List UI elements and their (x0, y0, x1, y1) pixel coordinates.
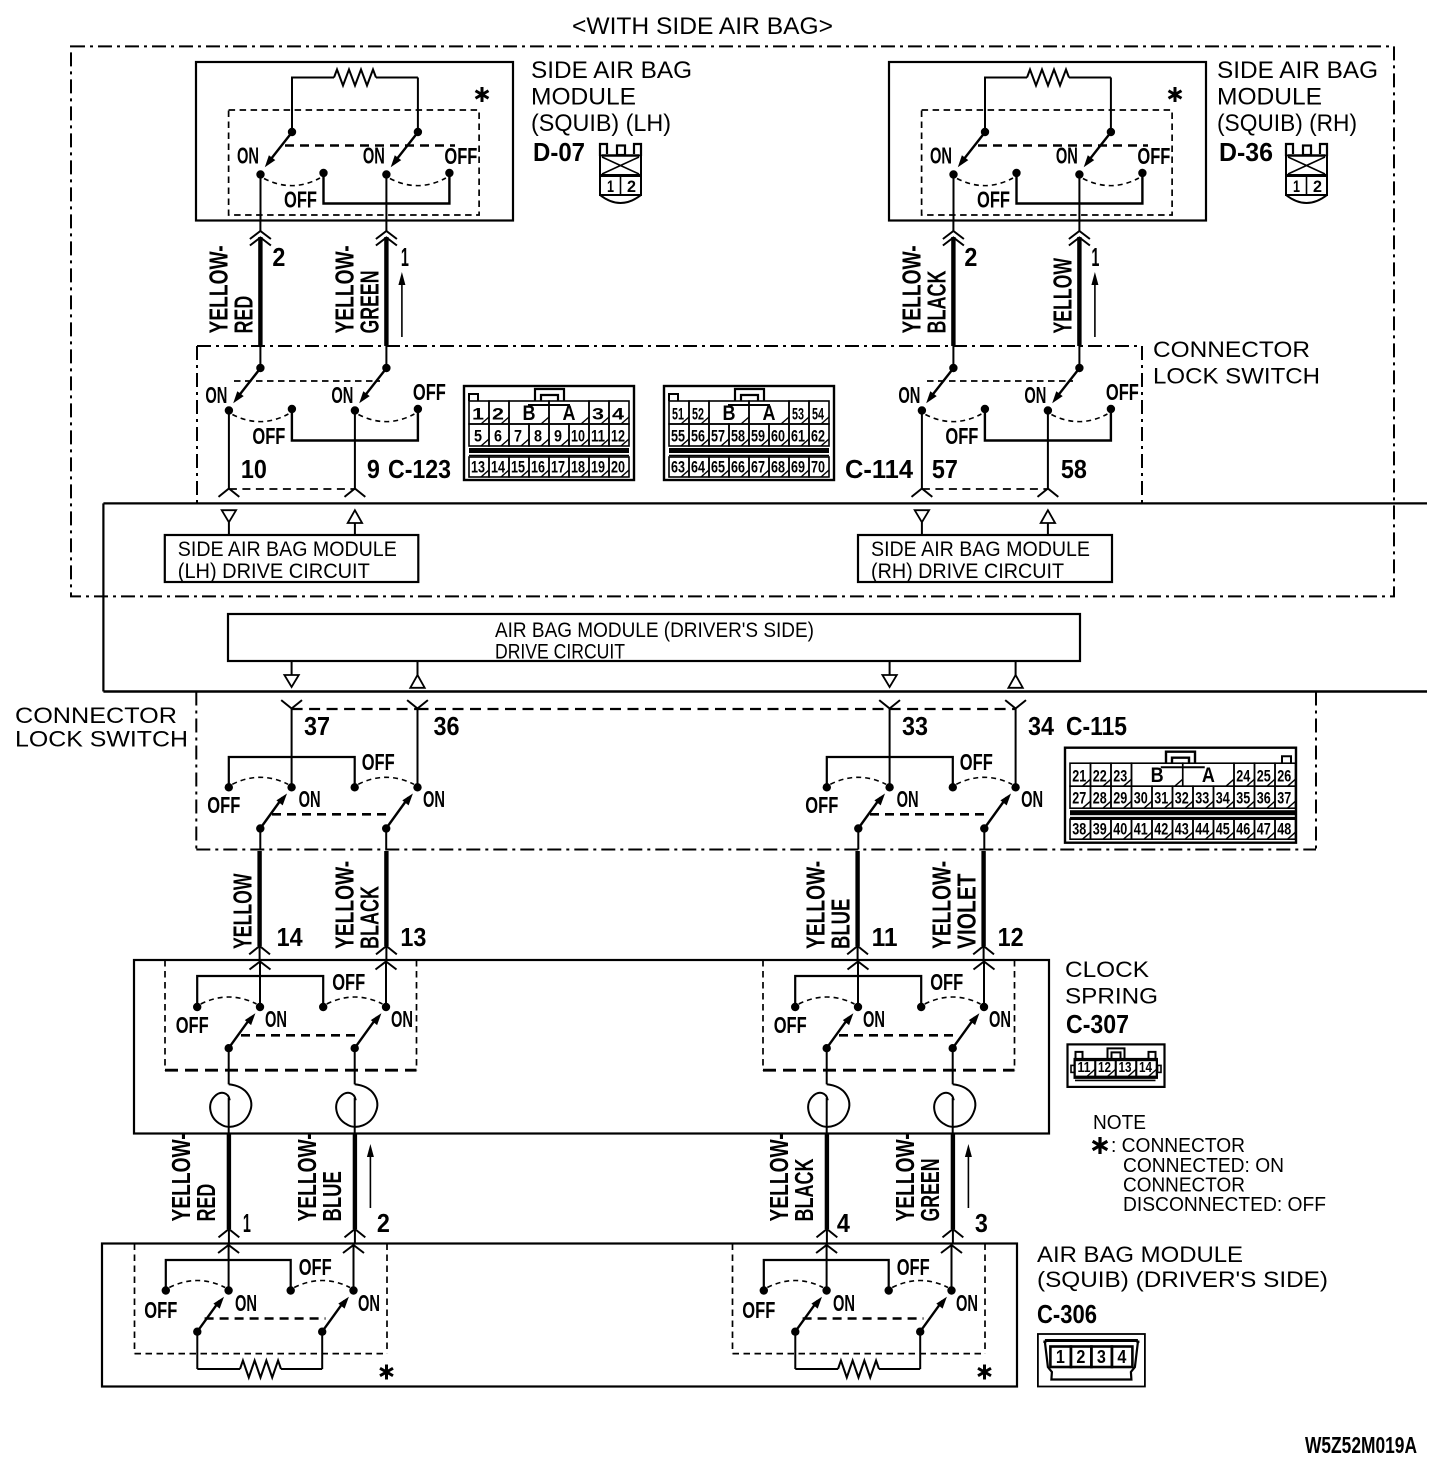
svg-text:BLACK: BLACK (789, 1158, 819, 1221)
svg-text:ON: ON (391, 1006, 413, 1032)
shorting bar row2 LH (292, 411, 418, 441)
wire YELLOW-RED pin1 (driver) (166, 1133, 251, 1243)
svg-text:68: 68 (771, 458, 785, 477)
dashed interface squib left (205, 1317, 326, 1320)
ON label B clock spring left (391, 1006, 413, 1032)
OFF label switch2 module LH (444, 143, 477, 169)
dashed connector outline squib right (733, 1244, 986, 1354)
entry wire B clock spring left (376, 960, 397, 1005)
signal triangle at x=354 (SRS input row) (348, 510, 362, 535)
svg-text:ON: ON (205, 382, 227, 408)
svg-text:65: 65 (711, 458, 725, 477)
svg-text:22: 22 (1093, 767, 1107, 786)
ON label A row3 RH (897, 786, 919, 812)
terminal fork pin A row3 RH (879, 700, 900, 785)
wire to pin A row2 LH (219, 413, 240, 497)
OFF shorting label squib right (897, 1254, 930, 1280)
svg-text:ON: ON (423, 786, 445, 812)
wire pivot B to coil left (354, 1050, 356, 1084)
svg-text:RED: RED (191, 1184, 221, 1222)
svg-text:9: 9 (554, 427, 562, 446)
SRS-ECU box (103, 503, 1427, 691)
svg-text:OFF: OFF (299, 1254, 332, 1280)
svg-text:NOTE: NOTE (1093, 1112, 1146, 1134)
connector C-114 pin diagram (664, 386, 834, 480)
connector D-36 icon (1286, 144, 1327, 203)
svg-text:OFF: OFF (1137, 143, 1170, 169)
air bag module driver label (1037, 1242, 1328, 1292)
svg-text:3: 3 (592, 405, 604, 424)
svg-text:LOCK SWITCH: LOCK SWITCH (1153, 364, 1320, 389)
svg-text:D-07: D-07 (533, 137, 585, 167)
svg-text:2: 2 (492, 405, 504, 424)
svg-text:SIDE AIR BAG: SIDE AIR BAG (531, 57, 692, 84)
svg-text:7: 7 (514, 427, 522, 446)
svg-text:58: 58 (1061, 454, 1087, 484)
svg-text:MODULE: MODULE (1217, 84, 1322, 111)
svg-text:OFF: OFF (284, 187, 317, 213)
entry wire A clock spring left (250, 960, 271, 1005)
shorting bar clock spring left (197, 976, 323, 1005)
side air bag module LH drive circuit box (165, 535, 418, 583)
svg-text:BLACK: BLACK (354, 886, 384, 949)
signal triangle at x=889 (driver drive circuit output) (882, 661, 896, 687)
connector dashed outline inside module LH (229, 110, 480, 215)
wire YELLOW-RED pin2 (LH) (203, 221, 285, 368)
svg-text:58: 58 (731, 427, 745, 446)
svg-text:14: 14 (491, 458, 505, 477)
asterisk squib right (978, 1365, 991, 1380)
svg-text:2: 2 (272, 242, 285, 272)
svg-text:62: 62 (811, 427, 825, 446)
svg-text:C-307: C-307 (1066, 1009, 1129, 1039)
svg-text:OFF: OFF (742, 1297, 775, 1323)
asterisk squib left (380, 1365, 393, 1380)
svg-text:55: 55 (671, 427, 685, 446)
svg-text:15: 15 (511, 458, 525, 477)
switch B squib right (885, 1281, 956, 1336)
svg-text:12: 12 (998, 922, 1024, 952)
svg-text:1: 1 (1293, 177, 1300, 196)
svg-text:SPRING: SPRING (1065, 984, 1158, 1009)
svg-text:ON: ON (265, 1006, 287, 1032)
svg-text:28: 28 (1093, 789, 1107, 808)
ON label switch2 module RH (1056, 143, 1078, 169)
svg-text:31: 31 (1154, 789, 1168, 808)
diagram code (1305, 1432, 1417, 1458)
spring coil A left (210, 1084, 251, 1127)
side air bag module RH drive circuit box (858, 535, 1112, 583)
connector lock switch boundary (upper) (197, 346, 1142, 503)
ON label A clock spring right (863, 1006, 885, 1032)
shorting bar row3 LH (229, 757, 355, 785)
connector C-115 label (1066, 711, 1127, 741)
svg-text:66: 66 (731, 458, 745, 477)
svg-text:1: 1 (243, 1208, 251, 1238)
connector C-123 label (388, 454, 451, 484)
switch 2 module RH (1075, 128, 1146, 186)
switch B row2 LH (351, 364, 422, 422)
connector interface dashed line module RH (978, 144, 1148, 147)
svg-text:34: 34 (1028, 711, 1054, 741)
svg-text:29: 29 (1113, 789, 1127, 808)
ON label B squib right (956, 1290, 978, 1316)
svg-text:19: 19 (591, 458, 605, 477)
OFF label shorting module LH (284, 187, 317, 213)
signal triangle at x=1047 (SRS input row) (1041, 510, 1055, 535)
terminal fork pin A row3 LH (281, 700, 302, 785)
dashed connector outline clock spring right (763, 960, 1015, 1070)
switch A row2 RH (918, 364, 989, 422)
connector lock switch label (lower) (15, 703, 188, 752)
svg-text:4: 4 (1117, 1347, 1126, 1367)
pin numbers row3 RH (902, 711, 1054, 741)
svg-text:37: 37 (1277, 789, 1291, 808)
ON label B squib left (358, 1290, 380, 1316)
wire YELLOW-BLACK pin4 (driver) (764, 1133, 850, 1243)
ON label B clock spring right (989, 1006, 1011, 1032)
svg-text:13: 13 (471, 458, 485, 477)
squib wiring module LH (291, 78, 418, 133)
side air bag module (RH) box (889, 62, 1206, 221)
dashed connector interface row3 LH (272, 813, 392, 816)
ON label B row3 LH (423, 786, 445, 812)
svg-text:(SQUIB) (LH): (SQUIB) (LH) (531, 110, 671, 137)
spring coil A right (808, 1084, 849, 1127)
svg-text:3: 3 (975, 1208, 988, 1238)
svg-text:10: 10 (571, 427, 585, 446)
coil exit wire B left (354, 1098, 356, 1134)
svg-text:ON: ON (863, 1006, 885, 1032)
svg-text:AIR BAG MODULE (DRIVER'S SIDE): AIR BAG MODULE (DRIVER'S SIDE) (495, 619, 814, 642)
svg-text:OFF: OFF (774, 1012, 807, 1038)
svg-text:ON: ON (237, 143, 259, 169)
squib resistor driver left (197, 1334, 322, 1378)
svg-text:51: 51 (672, 405, 684, 424)
svg-text:12: 12 (611, 427, 625, 446)
wire YELLOW-BLACK pin2 (RH) (896, 221, 977, 368)
shorting bar squib right (764, 1260, 889, 1289)
shorting bar squib left (166, 1260, 291, 1289)
svg-text:OFF: OFF (332, 969, 365, 995)
note block (1093, 1112, 1326, 1216)
wire YELLOW-GREEN pin1 (LH) (329, 221, 409, 368)
svg-text:67: 67 (751, 458, 765, 477)
squib resistor driver right (795, 1334, 920, 1378)
connector C-307 label (1066, 1009, 1129, 1039)
side air bag module (LH) box (196, 62, 513, 221)
wire exit 1 module RH (953, 177, 955, 221)
wire YELLOW-VIOLET pin12 (927, 851, 1024, 960)
svg-text:2: 2 (1313, 177, 1322, 196)
svg-text:(RH) DRIVE CIRCUIT: (RH) DRIVE CIRCUIT (871, 560, 1064, 583)
svg-text:61: 61 (791, 427, 805, 446)
svg-text:26: 26 (1277, 767, 1291, 786)
signal triangle at x=228 (SRS input row) (222, 510, 236, 535)
OFF shorting label row2 LH (252, 423, 285, 449)
switch A squib right (760, 1281, 831, 1336)
connector C-306 icon (1038, 1334, 1145, 1387)
switch A row3 LH (225, 777, 296, 832)
svg-text:27: 27 (1072, 789, 1086, 808)
pin interface dashed line row2 RH (922, 488, 1048, 490)
wire YELLOW pin14 (228, 851, 303, 960)
pin interface dashed line row2 LH (229, 488, 355, 490)
entry wire B clock spring right (974, 960, 995, 1005)
svg-text:2: 2 (377, 1208, 390, 1238)
svg-text:RED: RED (228, 296, 258, 334)
entry wire A clock spring right (848, 960, 869, 1005)
switch B squib left (287, 1281, 358, 1336)
svg-text:54: 54 (812, 405, 824, 424)
svg-text:OFF: OFF (207, 792, 240, 818)
svg-text:AIR BAG MODULE: AIR BAG MODULE (1037, 1242, 1243, 1267)
svg-text:4: 4 (837, 1208, 850, 1238)
svg-text:DISCONNECTED: OFF: DISCONNECTED: OFF (1123, 1194, 1326, 1216)
spring coil B right (934, 1084, 975, 1127)
switch A clock spring right (791, 997, 862, 1052)
OFF label A squib left (144, 1297, 177, 1323)
dashed connector outline row2 RH (927, 380, 1073, 382)
OFF label A clock spring right (774, 1012, 807, 1038)
shorting bar row2 RH (985, 411, 1111, 441)
svg-text:1: 1 (401, 242, 409, 272)
svg-text:(LH) DRIVE CIRCUIT: (LH) DRIVE CIRCUIT (178, 560, 370, 583)
svg-text:OFF: OFF (444, 143, 477, 169)
svg-text:8: 8 (534, 427, 542, 446)
svg-text:1: 1 (607, 177, 614, 196)
svg-text:OFF: OFF (1106, 379, 1139, 405)
wire to pin A row2 RH (912, 413, 933, 497)
svg-text:LOCK SWITCH: LOCK SWITCH (15, 727, 188, 752)
shorting bar clock spring right (795, 976, 921, 1005)
wire YELLOW-BLACK pin13 (329, 851, 426, 960)
wire from pivot A row3 RH (857, 831, 859, 850)
svg-text:10: 10 (241, 454, 267, 484)
svg-text:C-306: C-306 (1037, 1299, 1097, 1329)
connector dashed outline inside module RH (922, 110, 1173, 215)
svg-text:11: 11 (872, 922, 898, 952)
svg-text:16: 16 (531, 458, 545, 477)
svg-text:ON: ON (1056, 143, 1078, 169)
svg-text:5: 5 (474, 427, 482, 446)
svg-text:52: 52 (692, 405, 704, 424)
svg-text:MODULE: MODULE (531, 84, 636, 111)
switch A row3 RH (823, 777, 894, 832)
svg-text:C-123: C-123 (388, 454, 451, 484)
svg-text:2: 2 (1076, 1347, 1085, 1367)
connector D-36 label (1219, 137, 1273, 167)
terminal fork pin B row3 RH (1005, 700, 1026, 785)
svg-text:OFF: OFF (977, 187, 1010, 213)
svg-text:DRIVE CIRCUIT: DRIVE CIRCUIT (495, 641, 625, 664)
svg-text:24: 24 (1236, 767, 1250, 786)
pin interface dashed line row3 RH (890, 708, 1016, 710)
dashed connector outline row2 LH (234, 380, 380, 382)
svg-text:41: 41 (1134, 820, 1148, 839)
squib resistor module LH (334, 70, 376, 86)
module LH label (531, 57, 692, 137)
dashed connector outline clock spring left (165, 960, 417, 1070)
connector C-115 pin diagram (1065, 748, 1296, 843)
dashed connector outline squib left (135, 1244, 388, 1354)
svg-text:9: 9 (367, 454, 380, 484)
svg-text:VIOLET: VIOLET (952, 873, 982, 949)
shorting bar row3 RH (827, 757, 953, 785)
svg-text:13: 13 (1119, 1059, 1132, 1076)
svg-text:: CONNECTOR: : CONNECTOR (1111, 1135, 1245, 1157)
svg-text:57: 57 (932, 454, 958, 484)
svg-text:63: 63 (671, 458, 685, 477)
svg-text:36: 36 (434, 711, 460, 741)
svg-text:40: 40 (1113, 820, 1127, 839)
svg-text:12: 12 (1098, 1059, 1111, 1076)
svg-text:OFF: OFF (945, 423, 978, 449)
dashed connector interface row3 RH (870, 813, 990, 816)
OFF label A row3 RH (805, 792, 838, 818)
svg-text:C-114: C-114 (845, 454, 914, 484)
pin interface dashed line row3 LH (292, 708, 418, 710)
svg-text:25: 25 (1257, 767, 1271, 786)
svg-text:53: 53 (792, 405, 804, 424)
dashed interface squib right (803, 1317, 924, 1320)
svg-text:OFF: OFF (960, 749, 993, 775)
svg-text:3: 3 (1097, 1347, 1106, 1367)
asterisk module RH (1169, 87, 1182, 102)
svg-text:44: 44 (1195, 820, 1209, 839)
svg-text:34: 34 (1216, 789, 1230, 808)
svg-text:4: 4 (612, 405, 625, 424)
svg-text:ON: ON (331, 382, 353, 408)
wire pivot B to coil right (952, 1050, 954, 1084)
svg-text:OFF: OFF (413, 379, 446, 405)
svg-text:OFF: OFF (930, 969, 963, 995)
svg-text:BLACK: BLACK (921, 270, 951, 333)
coil exit wire B right (952, 1098, 954, 1134)
svg-text:47: 47 (1257, 820, 1271, 839)
svg-text:(SQUIB) (DRIVER'S SIDE): (SQUIB) (DRIVER'S SIDE) (1037, 1267, 1328, 1292)
pin numbers row2 LH (241, 454, 380, 484)
svg-text:SIDE AIR BAG: SIDE AIR BAG (1217, 57, 1378, 84)
shorting bar module LH (324, 175, 450, 204)
svg-text:CLOCK: CLOCK (1065, 957, 1149, 982)
svg-text:GREEN: GREEN (354, 271, 384, 334)
svg-text:69: 69 (791, 458, 805, 477)
OFF shorting label row2 RH (945, 423, 978, 449)
connector C-307 icon (1068, 1044, 1165, 1087)
wire exit 2 module LH (385, 177, 387, 221)
terminal fork pin B row3 LH (407, 700, 428, 785)
wire YELLOW-GREEN pin3 (driver) (890, 1133, 988, 1243)
svg-text:39: 39 (1093, 820, 1107, 839)
ON label A squib left (235, 1290, 257, 1316)
wire to pin B row2 RH (1038, 413, 1059, 497)
svg-text:1: 1 (472, 405, 484, 424)
svg-text:59: 59 (751, 427, 765, 446)
ON label switch1 module LH (237, 143, 259, 169)
svg-text:ON: ON (1021, 786, 1043, 812)
svg-text:CONNECTOR: CONNECTOR (1153, 337, 1310, 362)
svg-text:38: 38 (1072, 820, 1086, 839)
wire exit 1 module LH (260, 177, 262, 221)
svg-text:11: 11 (591, 427, 605, 446)
ON label B row2 RH (1024, 382, 1046, 408)
svg-text:D-36: D-36 (1219, 137, 1273, 167)
pin interface dashed line row3 middle span (418, 708, 890, 710)
asterisk module LH (476, 87, 489, 102)
air bag module driver side drive circuit box (228, 614, 1080, 664)
wire YELLOW pin1 (RH) (1047, 221, 1099, 368)
connector lock switch label (upper) (1153, 337, 1320, 389)
switch 1 module LH (256, 128, 327, 186)
spring coil B left (336, 1084, 377, 1127)
svg-text:CONNECTOR: CONNECTOR (15, 703, 177, 728)
air bag module driver box (102, 1244, 1017, 1387)
svg-text:OFF: OFF (805, 792, 838, 818)
svg-text:33: 33 (1195, 789, 1209, 808)
outer boundary (with side air bag section) (71, 46, 1394, 596)
svg-text:BLUE: BLUE (317, 1171, 347, 1221)
connector D-07 label (533, 137, 585, 167)
svg-text:35: 35 (1236, 789, 1250, 808)
connector D-07 icon (600, 144, 641, 203)
OFF label switch2 module RH (1137, 143, 1170, 169)
svg-text:36: 36 (1257, 789, 1271, 808)
wire exit 2 module RH (1078, 177, 1080, 221)
entry wire A squib left (218, 1244, 239, 1289)
svg-text:OFF: OFF (362, 749, 395, 775)
wire YELLOW-BLUE pin11 (801, 851, 898, 960)
svg-text:ON: ON (989, 1006, 1011, 1032)
OFF shorting label clock spring right (930, 969, 963, 995)
connector C-114 label (845, 454, 914, 484)
wire from pivot B row3 RH (983, 831, 985, 850)
OFF shorting label row3 LH (362, 749, 395, 775)
svg-text:20: 20 (611, 458, 625, 477)
svg-text:YELLOW: YELLOW (228, 873, 258, 949)
svg-text:64: 64 (691, 458, 705, 477)
OFF label B row2 LH (413, 379, 446, 405)
svg-text:OFF: OFF (176, 1012, 209, 1038)
svg-text:ON: ON (930, 143, 952, 169)
svg-text:48: 48 (1277, 820, 1291, 839)
svg-text:46: 46 (1236, 820, 1250, 839)
svg-text:ON: ON (235, 1290, 257, 1316)
connector C-123 pin diagram (464, 386, 634, 480)
switch B row2 RH (1044, 364, 1115, 422)
svg-text:13: 13 (400, 922, 426, 952)
entry wire A squib right (816, 1244, 837, 1289)
ON label A row3 LH (299, 786, 321, 812)
svg-text:14: 14 (277, 922, 303, 952)
switch 1 module RH (949, 128, 1020, 186)
svg-text:2: 2 (627, 177, 636, 196)
connector interface dashed line module LH (285, 144, 455, 147)
switch B clock spring left (319, 997, 390, 1052)
svg-text:GREEN: GREEN (915, 1159, 945, 1222)
wire from pivot A row3 LH (259, 831, 261, 850)
svg-text:11: 11 (1078, 1059, 1091, 1076)
svg-text:C-115: C-115 (1066, 711, 1127, 741)
svg-text:56: 56 (691, 427, 705, 446)
OFF shorting label clock spring left (332, 969, 365, 995)
svg-text:37: 37 (304, 711, 330, 741)
svg-text:32: 32 (1175, 789, 1189, 808)
ON label B row2 LH (331, 382, 353, 408)
signal triangle at x=921 (SRS input row) (915, 510, 929, 535)
svg-text:43: 43 (1175, 820, 1189, 839)
svg-text:21: 21 (1072, 767, 1086, 786)
